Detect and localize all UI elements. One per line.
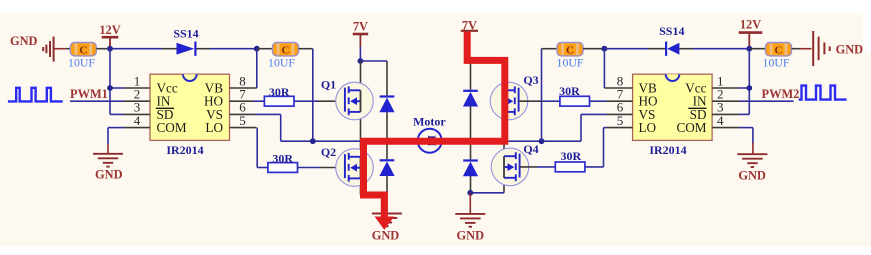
svg-text:GND: GND (738, 168, 766, 182)
U1 pin 6 VS (230, 113, 256, 115)
transistor Q3 drain (502, 61, 504, 90)
transistor Q1 (336, 82, 374, 120)
ground COM right (752, 143, 754, 154)
svg-text:PWM2: PWM2 (762, 87, 800, 101)
op-amp U2 IR2014 body (633, 74, 713, 140)
svg-text:12V: 12V (740, 17, 761, 31)
diode D2 leads (386, 141, 388, 159)
svg-text:30R: 30R (560, 149, 581, 163)
node VS-C2 junction (310, 138, 316, 144)
wire Q4 gate (520, 166, 537, 168)
U2 notch (666, 74, 680, 81)
wire 7V node to Q3 (471, 60, 504, 62)
svg-text:Motor: Motor (413, 115, 446, 129)
mid rail VS wire (281, 140, 581, 142)
transistor Q2 source (360, 178, 362, 195)
bottom rail left (361, 194, 388, 196)
ground port GND right (813, 31, 830, 66)
svg-text:10UF: 10UF (763, 56, 790, 70)
U2 pin 5 LO (607, 127, 633, 129)
resistor R1 30R gate Q1 (264, 96, 294, 106)
wire D6 to 12V node (693, 48, 749, 50)
node 12V right junction (746, 46, 752, 52)
op-amp U1 IR2014 body (150, 74, 230, 140)
wire C2 down to VS rail (312, 49, 314, 142)
ground stem bottom left (386, 195, 388, 214)
svg-text:IR2014: IR2014 (649, 143, 686, 157)
wire PWM1 net (70, 100, 124, 102)
transistor Q3 (490, 82, 528, 120)
U2 pin 8 VB (604, 87, 632, 89)
bottom rail right (470, 192, 504, 194)
svg-text:PWM1: PWM1 (70, 87, 108, 101)
svg-text:GND: GND (372, 229, 400, 243)
node mid rail cap junction (539, 138, 545, 144)
wire 12V down to pin1 and pin3 right (748, 49, 750, 115)
U1 pin 5 LO (230, 127, 257, 129)
wire R1 to Q1 gate (294, 100, 318, 102)
svg-text:Q3: Q3 (523, 73, 538, 87)
svg-text:COM: COM (157, 120, 187, 135)
svg-text:Q4: Q4 (523, 142, 538, 156)
diode D4 (463, 159, 478, 176)
pin C1 right (96, 48, 107, 50)
resistor R2 30R gate Q2 (268, 163, 298, 173)
svg-text:30R: 30R (269, 85, 290, 99)
svg-text:12V: 12V (99, 23, 120, 37)
resistor R4 30R gate Q4 (555, 162, 585, 172)
svg-text:GND: GND (836, 42, 864, 56)
svg-text:SS14: SS14 (173, 27, 198, 41)
svg-text:30R: 30R (559, 84, 580, 98)
svg-text:10UF: 10UF (268, 56, 295, 70)
svg-text:GND: GND (457, 229, 485, 243)
U1 notch (183, 74, 197, 81)
node pin1 junction (107, 85, 113, 91)
resistor R3 30R gate Q3 (560, 96, 590, 106)
diode D2 (379, 159, 394, 176)
wire GND to C1 (55, 48, 66, 50)
transistor Q4 drain (503, 141, 505, 156)
U1 pin 8 VB (230, 87, 257, 89)
PWM1 input wave (8, 88, 63, 102)
transistor Q4 source (503, 178, 505, 193)
capacitor C1 10UF (70, 43, 96, 57)
U2 pin 1 Vcc (712, 87, 739, 89)
svg-text:10UF: 10UF (68, 56, 95, 70)
pin C2 right (299, 48, 313, 50)
U1 pin 1 Vcc (124, 87, 151, 89)
ground COM left (107, 144, 109, 153)
svg-text:LO: LO (205, 120, 223, 135)
wire Q1 source to mid rail (360, 112, 362, 141)
U1 pin 3 SD (124, 113, 151, 115)
node bottom right junction (467, 190, 473, 196)
wire R2 to Q2 gate (298, 167, 321, 169)
diode D1 (379, 95, 394, 112)
svg-text:Q2: Q2 (321, 145, 336, 159)
node VB left (254, 46, 260, 52)
U2 pin 7 HO (607, 100, 633, 102)
node 7V left junction (358, 58, 364, 64)
wire Q3 gate (519, 100, 543, 102)
svg-text:SS14: SS14 (659, 24, 684, 38)
U1 pin 4 COM (124, 127, 151, 129)
transistor Q4 (491, 148, 529, 186)
svg-text:LO: LO (639, 120, 657, 135)
diode D4 leads (470, 141, 472, 159)
capacitor C3 10UF bootstrap right (557, 43, 583, 57)
U1 pin 7 HO (230, 100, 254, 102)
svg-text:10UF: 10UF (557, 56, 584, 70)
ground stem bottom right (469, 193, 471, 214)
capacitor C4 10UF right (766, 43, 792, 57)
wire node to C2 (257, 48, 273, 50)
wire Q1 drain (360, 61, 362, 90)
diode D3 leads (470, 61, 472, 90)
svg-text:Q1: Q1 (321, 78, 336, 92)
pin C3 right (583, 48, 604, 50)
U2 pin 2 IN / PWM2 net (712, 100, 739, 102)
arrow current path GND (375, 217, 395, 230)
diode D3 (463, 90, 478, 107)
wire 12V down to pin1 and pin3 (109, 49, 111, 115)
capacitor C2 10UF bootstrap left (273, 43, 299, 57)
pin C4 right (792, 48, 801, 50)
node 12V junction (107, 46, 113, 52)
wire highlighted current path (364, 32, 505, 218)
svg-text:GND: GND (10, 34, 38, 48)
svg-text:COM: COM (676, 120, 706, 135)
svg-text:IR2014: IR2014 (166, 143, 203, 157)
svg-text:GND: GND (95, 168, 123, 182)
transistor Q2 drain (360, 141, 362, 157)
wire 7V node to D1 (360, 60, 387, 62)
U2 pin 4 COM (712, 127, 739, 129)
svg-text:7V: 7V (353, 20, 368, 34)
wire node to C4 (749, 48, 766, 50)
U2 pin 6 VS (607, 113, 633, 115)
wire D5 to VB node (210, 48, 257, 50)
wire VB node down to pin8 (256, 49, 258, 88)
wire VS right elbow (580, 114, 582, 141)
U2 pin 3 SD (712, 113, 739, 115)
PWM2 input wave (799, 86, 847, 100)
transistor Q2 (336, 149, 374, 187)
node pin1 right junction (746, 85, 752, 91)
node VB right (602, 46, 608, 52)
transistor Q3 source (502, 112, 504, 141)
wire VB node down to pin8 (603, 49, 605, 88)
svg-text:30R: 30R (272, 151, 293, 165)
wire C3 elbow down (541, 49, 543, 142)
wire 12V to D5 (110, 48, 162, 50)
white notch top right (863, 13, 871, 51)
U1 pin 2 IN (124, 100, 151, 102)
diode D1 leads (386, 61, 388, 95)
motor M1 (418, 129, 442, 153)
wire node to D6 (604, 48, 648, 50)
